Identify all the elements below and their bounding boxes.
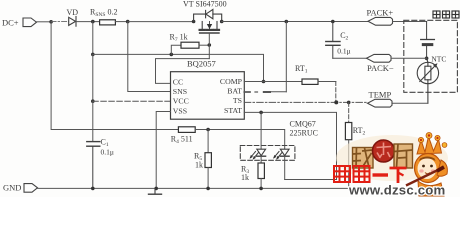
node GND-VSS — [154, 187, 158, 191]
node Q1 source — [192, 20, 196, 24]
label battery pack (dianchizu) — [433, 11, 459, 18]
IC U1 BQ2057 — [171, 59, 245, 120]
connector GND — [3, 183, 38, 193]
svg-text:DC+: DC+ — [2, 18, 19, 28]
wire SNS — [128, 22, 171, 92]
ground symbol — [149, 188, 162, 194]
wire R4 to LED2 — [195, 130, 285, 149]
svg-text:VT SI647500: VT SI647500 — [183, 0, 227, 9]
svg-text:RSNS 0.2: RSNS 0.2 — [90, 8, 117, 19]
resistor R3 1k — [241, 156, 264, 188]
svg-text:C1: C1 — [101, 138, 109, 149]
wire VSS — [156, 112, 170, 189]
wire node B down to line A — [92, 22, 94, 55]
watermark WEIKUYIXIA red text — [334, 166, 407, 183]
svg-text:VCC: VCC — [173, 97, 189, 106]
node R5 tap — [206, 128, 210, 132]
resistor RT2 — [345, 102, 365, 188]
thermistor NTC — [417, 58, 438, 103]
svg-text:RT1: RT1 — [295, 64, 308, 75]
svg-text:PACK−: PACK− — [367, 63, 394, 73]
svg-text:BQ2057: BQ2057 — [187, 59, 216, 69]
battery GB — [421, 22, 435, 59]
wire line A to COMP node — [93, 54, 264, 81]
node GND-C1 — [91, 187, 95, 191]
node C — [126, 20, 130, 24]
node C2 tap — [331, 20, 335, 24]
wire CC loop — [156, 59, 210, 84]
svg-text:VD: VD — [67, 8, 79, 17]
resistor RT1 — [295, 64, 336, 102]
svg-text:CC: CC — [173, 77, 183, 86]
svg-text:VSS: VSS — [173, 106, 187, 115]
resistor R4 511 — [171, 127, 195, 145]
svg-text:C2: C2 — [340, 31, 348, 42]
node STAT-LED1 — [259, 111, 263, 115]
transistor VT SI647500 (P-MOSFET) — [200, 22, 219, 34]
node gate-R7 — [208, 43, 212, 47]
LED D1 — [250, 112, 266, 159]
capacitor C1 — [87, 138, 114, 189]
wire DC+ to node A — [37, 21, 52, 23]
svg-text:RT2: RT2 — [353, 126, 366, 137]
watermark dzsc.com — [334, 133, 448, 198]
wire gate — [208, 34, 210, 59]
node line A start — [91, 53, 95, 57]
wire VD to node B — [76, 21, 100, 23]
wire BAT chain — [244, 22, 286, 93]
svg-text:PACK+: PACK+ — [367, 8, 394, 18]
wire NTC to TEMP — [392, 102, 428, 104]
svg-text:GND: GND — [3, 183, 21, 193]
connector PACK- — [367, 54, 394, 72]
svg-text:CMQ67: CMQ67 — [290, 120, 316, 129]
wire node C to Q1 source — [128, 21, 194, 23]
GND rail — [38, 187, 349, 189]
wire DC+ branch to R4 line — [51, 22, 178, 130]
connector DC+ — [2, 18, 37, 28]
connector TEMP — [368, 90, 393, 108]
svg-text:0.1μ: 0.1μ — [337, 47, 350, 56]
svg-text:www.dzsc.com: www.dzsc.com — [348, 183, 445, 198]
wire VCC node to C1 — [92, 101, 94, 141]
node Q1 drain — [220, 20, 224, 24]
svg-text:BAT: BAT — [227, 86, 242, 95]
svg-text:1k: 1k — [241, 173, 249, 182]
svg-text:TS: TS — [233, 96, 242, 105]
wire C2 to PACK- — [333, 57, 367, 59]
wire VCC node vertical — [92, 54, 94, 101]
node R7 tap — [170, 53, 174, 57]
resistor R5 1k — [194, 130, 211, 189]
diode VD — [67, 8, 79, 26]
wire COMP to RT1 — [244, 81, 302, 83]
svg-text:COMP: COMP — [220, 77, 243, 86]
svg-text:NTC: NTC — [431, 55, 446, 64]
resistor R7 1k — [170, 33, 210, 55]
node battery minus / NTC top — [425, 57, 429, 61]
body diode of VT — [194, 9, 222, 21]
watermark char PIAN — [394, 144, 413, 168]
connector PACK+ — [367, 8, 394, 26]
resistor RSNS 0.2 — [90, 8, 117, 25]
svg-text:R7 1k: R7 1k — [170, 33, 188, 44]
node A — [49, 20, 53, 24]
LED D2 — [273, 149, 289, 179]
battery box (dashed) — [404, 20, 458, 92]
node VCC tap — [91, 99, 95, 103]
node GND-R5 — [206, 187, 210, 191]
wire STAT — [244, 112, 336, 179]
svg-text:225RUC: 225RUC — [290, 129, 318, 138]
node BAT tap — [285, 20, 289, 24]
wire drain to PACK+ — [222, 21, 368, 23]
wire RSNS to node C — [115, 21, 127, 23]
svg-text:STAT: STAT — [224, 106, 242, 115]
node COMP/CC — [262, 80, 266, 84]
watermark char ZHAO — [353, 148, 374, 169]
watermark mascot — [406, 133, 447, 197]
svg-text:TEMP: TEMP — [369, 90, 392, 100]
capacitor C2 — [326, 22, 351, 59]
watermark circle XIN — [373, 140, 395, 162]
svg-text:0.1μ: 0.1μ — [101, 148, 114, 157]
wire PACK+ to battery — [393, 21, 427, 23]
node TS-RT1 — [334, 100, 338, 104]
svg-text:SNS: SNS — [173, 87, 187, 96]
node TS-RT2 — [347, 101, 351, 105]
wire PACK- to battery box — [391, 57, 427, 59]
wire VCC dash — [93, 100, 171, 102]
wire node A to VD — [51, 21, 69, 23]
node B — [91, 20, 95, 24]
LED box CMQ67 225RUC (dashed) — [240, 120, 318, 161]
wire TS chain — [244, 101, 367, 103]
node GND-R3 — [259, 187, 263, 191]
svg-text:1k: 1k — [195, 161, 203, 170]
svg-text:R4 511: R4 511 — [171, 135, 193, 146]
